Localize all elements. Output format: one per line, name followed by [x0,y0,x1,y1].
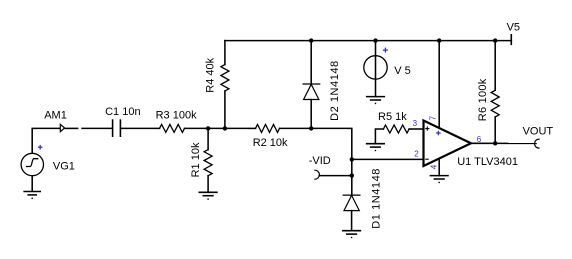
svg-text:R5 1k: R5 1k [378,111,407,123]
diode D1 [343,176,360,231]
ground below op-amp pin4 [430,176,448,184]
diode D2 [303,41,320,129]
op-amp input + marker [425,127,429,131]
wire pin7 to rail [438,41,440,128]
junction node VOUT/R6 [493,141,497,145]
wire VG1 top to corner [32,128,60,153]
wire AM1 to C1 [81,127,112,129]
wire node down to -VID node [351,159,353,175]
svg-text:2: 2 [414,149,419,158]
resistor R3 [160,124,185,132]
label R4 40k [205,57,217,92]
svg-text:R4 40k: R4 40k [205,57,217,92]
junction node R4/R2 [223,126,227,130]
wire op-amp output to VOUT [471,142,536,144]
junction node pin7 rail [437,38,441,42]
svg-text:D1 1N4148: D1 1N4148 [371,168,383,229]
svg-text:-VID: -VID [309,155,331,167]
resistor R5 [375,125,422,144]
ground below VG1 [23,192,41,200]
terminal -VID [315,170,352,179]
resistor R6 [491,41,499,144]
junction node -VID [350,173,354,177]
wire C1 to R3 [121,127,159,129]
label VG1 [53,160,75,172]
op-amp supply + marker [436,131,441,136]
capacitor C1 [113,120,121,136]
label D2 1N4148 [329,60,341,121]
ground below D1 [343,231,361,239]
svg-text:V5: V5 [507,22,520,34]
pin 4 [429,164,438,169]
label R5 1k [378,111,407,123]
wire R2 node down to pin2 level [311,128,352,159]
wire pin4 to ground [438,159,440,176]
pin 6 [477,135,482,144]
svg-text:D2 1N4148: D2 1N4148 [329,60,341,121]
svg-text:3: 3 [413,119,418,128]
junction node pin2 [350,157,354,161]
polarity + of VG1 [38,145,43,150]
svg-text:VOUT: VOUT [523,125,554,137]
svg-text:V 5: V 5 [394,65,411,77]
svg-text:R3 100k: R3 100k [156,110,197,122]
label VOUT [523,125,554,137]
label V 5 [394,65,411,77]
junction node R1 tap [206,126,210,130]
svg-text:R6 100k: R6 100k [477,78,489,121]
svg-text:7: 7 [428,115,437,120]
resistor R2 [249,124,311,132]
label R3 100k [156,110,197,122]
op-amp U1 triangle [424,121,472,167]
svg-text:R2 10k: R2 10k [253,137,288,149]
label R1 10k [190,142,202,177]
junction node R6 top [493,38,497,42]
pin 2 [414,149,419,158]
voltage source V5 [364,41,387,97]
top rail wire [225,40,511,42]
label R2 10k [253,137,288,149]
ammeter AM1 [60,124,78,131]
ground below R5 [367,144,385,152]
pin 7 [428,115,437,120]
label U1 TLV3401 [457,156,518,168]
label R6 100k [477,78,489,121]
terminal VOUT [535,139,540,148]
terminal V5 [510,35,512,45]
svg-text:AM1: AM1 [44,110,67,122]
label C1 10n [105,106,140,118]
label AM1 [44,110,67,122]
pin 3 [413,119,418,128]
polarity + of V5 [383,48,388,53]
wire R3 to R2 [185,127,248,129]
junction node V5 source top [373,38,377,42]
resistor R1 [204,128,212,192]
generator VG1 [21,153,43,191]
wire node to op-amp pin2 [352,158,423,160]
label -VID [309,155,331,167]
op-amp input - marker [425,158,429,160]
resistor R4 [221,41,229,129]
svg-text:VG1: VG1 [53,160,75,172]
svg-text:4: 4 [429,164,438,169]
junction node R2/D2 [309,126,313,130]
ground below R1 [199,192,217,200]
junction node D2 top [309,38,313,42]
svg-text:6: 6 [477,135,482,144]
label D1 1N4148 [371,168,383,229]
label V5 [507,22,520,34]
svg-text:C1 10n: C1 10n [105,106,140,118]
ground below V5 [367,97,385,105]
svg-text:U1 TLV3401: U1 TLV3401 [457,156,518,168]
svg-text:R1 10k: R1 10k [190,142,202,177]
